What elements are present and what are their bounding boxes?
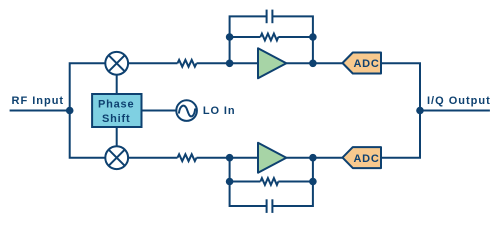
LO source symbol bbox=[176, 100, 197, 121]
resistor R4 bottom feedback bbox=[260, 178, 278, 185]
node top feedback left on resistor line bbox=[226, 33, 234, 41]
node RF input junction bbox=[66, 107, 74, 115]
svg-text:ADC: ADC bbox=[354, 58, 380, 70]
wire left vertical with branches to mixers bbox=[70, 63, 106, 157]
mixer M2 bottom circle bbox=[105, 146, 128, 169]
resistor R2 bottom series bbox=[178, 154, 197, 161]
node top feedback right on resistor line bbox=[309, 33, 317, 41]
mixer M2 X bbox=[109, 150, 125, 166]
node top feedback right on main bbox=[309, 60, 317, 68]
wire bottom resistor to amp bbox=[197, 157, 259, 159]
wire bottom feedback left vertical and cap line left bbox=[230, 158, 267, 206]
svg-text:Shift: Shift bbox=[102, 113, 130, 125]
amplifier A1 top bbox=[258, 48, 286, 78]
node top feedback left on main bbox=[226, 60, 234, 68]
capacitor C2 bottom feedback bbox=[266, 199, 268, 213]
svg-text:ADC: ADC bbox=[354, 153, 380, 165]
wire top mixer to phase shift bbox=[116, 63, 118, 94]
wire phase shift to LO bbox=[142, 110, 187, 112]
ADC U2 top bbox=[343, 53, 382, 74]
wire top feedback resistor line right bbox=[278, 36, 313, 38]
wire top amp output bbox=[286, 62, 342, 64]
wire top resistor to amp bbox=[197, 62, 259, 64]
wire bottom amp output bbox=[286, 157, 342, 159]
wire bottom mixer to resistor bbox=[127, 157, 178, 159]
wire top ADC to right vertical and down bbox=[381, 63, 420, 157]
ADC U3 bottom bbox=[343, 147, 382, 168]
node output junction bbox=[416, 107, 424, 115]
node bottom feedback right on resistor line bbox=[309, 178, 317, 186]
svg-text:RF Input: RF Input bbox=[12, 95, 65, 107]
wire RF input horizontal bbox=[10, 110, 70, 112]
node bottom feedback left on main bbox=[226, 154, 234, 162]
wire bottom feedback resistor line right bbox=[278, 181, 313, 183]
wire top feedback left vertical and cap line left bbox=[230, 16, 267, 63]
svg-text:Phase: Phase bbox=[98, 99, 134, 111]
LO sine wave bbox=[179, 106, 195, 117]
resistor R3 top feedback bbox=[260, 34, 278, 41]
amplifier A2 bottom bbox=[258, 143, 286, 173]
svg-text:LO In: LO In bbox=[203, 105, 236, 117]
wire bottom feedback resistor line left bbox=[230, 181, 261, 183]
wire top mixer to resistor bbox=[127, 62, 178, 64]
mixer M1 X bbox=[109, 55, 125, 71]
node bottom feedback right on main bbox=[309, 154, 317, 162]
node bottom feedback left on resistor line bbox=[226, 178, 234, 186]
wire phase shift to bottom mixer bbox=[116, 127, 118, 158]
phase shifter U1 box bbox=[92, 94, 141, 127]
resistor R1 top series bbox=[178, 60, 197, 67]
wire top feedback resistor line left bbox=[230, 36, 261, 38]
wire top feedback right vertical and cap line right bbox=[272, 16, 313, 63]
wire bottom feedback right vertical and cap line right bbox=[272, 158, 313, 206]
capacitor C1 top feedback bbox=[266, 10, 268, 24]
mixer M1 top circle bbox=[105, 52, 128, 75]
wire output bbox=[420, 110, 490, 112]
svg-text:I/Q Output: I/Q Output bbox=[427, 95, 491, 107]
